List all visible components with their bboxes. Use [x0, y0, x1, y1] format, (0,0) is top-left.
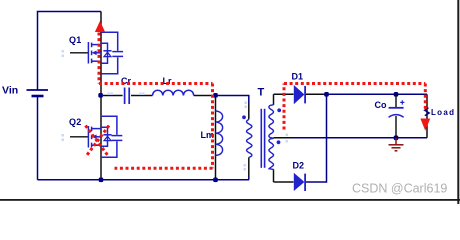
wire secondary bottom to D2	[274, 181, 294, 183]
inductor Lm	[216, 111, 223, 155]
wire D1 to junction	[306, 93, 327, 95]
red dashed X mark over Q2 leg 1	[86, 126, 110, 158]
current path red dashed right vertical of tank loop	[211, 84, 214, 169]
transistor Q1 body diode triangle	[104, 52, 111, 56]
wire Lm branch vertical	[215, 97, 217, 180]
transformer secondary winding polarity dot top	[277, 108, 281, 112]
wire top rail Vin+ to Q1 drain	[38, 12, 102, 91]
red dashed X mark over Q2 leg 2	[86, 126, 110, 158]
capacitor Co leads	[395, 94, 397, 138]
capacitor Cr	[125, 88, 130, 105]
current path red dashed bottom horizontal of tank loop	[115, 167, 213, 170]
transformer T secondary top winding	[269, 105, 274, 139]
transformer secondary top lead	[273, 94, 275, 105]
current path red arrow up at Q1 drain	[95, 21, 105, 32]
node midpoint of half-bridge	[98, 93, 103, 98]
wire Cr to Lr	[131, 95, 153, 97]
current path red dashed secondary side vertical	[283, 84, 286, 130]
diode D2	[294, 173, 305, 191]
transistor Q2 body arrow	[92, 135, 97, 140]
wire primary bottom black lead	[248, 158, 250, 177]
transformer core	[261, 109, 264, 168]
ground symbol	[389, 138, 404, 151]
svg-text:Q1: Q1	[69, 35, 82, 45]
svg-text:Vin: Vin	[2, 85, 18, 97]
wire output top rail	[327, 93, 427, 95]
node Co bottom	[394, 136, 399, 141]
current path red arrow down at load	[420, 119, 430, 131]
node Q2 source / bottom rail	[99, 178, 104, 183]
svg-text:CSDN @Carl619: CSDN @Carl619	[352, 182, 447, 196]
wire secondary top to D1	[274, 93, 294, 95]
transistor Q1 body arrow	[92, 51, 97, 56]
wire node to transformer primary top	[218, 96, 249, 105]
capacitor Co plus sign	[400, 100, 404, 104]
node Lm bottom / bottom rail	[213, 178, 218, 183]
node resonant tank top	[213, 93, 218, 98]
node Co top	[394, 92, 399, 97]
capacitor Co polarized plates	[389, 108, 404, 117]
resistor load zigzag	[425, 108, 430, 116]
faint wire-end marks	[62, 50, 289, 171]
bottom window border line	[0, 199, 460, 201]
capacitor across Q2	[101, 116, 122, 157]
wire D2 cathode up to output junction	[306, 94, 327, 182]
transistor Q1 gate lead wire	[70, 52, 88, 54]
svg-text:Q2: Q2	[69, 117, 82, 127]
current path red dashed through Q1	[98, 33, 101, 84]
diode D1	[294, 85, 305, 104]
source Vin battery	[27, 90, 49, 96]
svg-text:D1: D1	[292, 72, 304, 82]
wire left rail Vin- to bottom	[37, 96, 39, 180]
wire primary top black lead	[248, 104, 250, 119]
right window border line	[457, 0, 459, 204]
current path red dashed output top horizontal	[284, 82, 425, 85]
wire bottom rail	[38, 179, 250, 181]
transformer secondary bottom lead	[273, 169, 275, 182]
wire Lr to node	[194, 95, 216, 97]
svg-text:T: T	[258, 87, 265, 99]
transformer primary polarity dot	[242, 115, 246, 119]
svg-text:D2: D2	[293, 161, 305, 171]
transistor Q2 gate lead wire	[70, 136, 88, 138]
transformer T primary winding	[247, 119, 252, 157]
wire midpoint to Cr	[103, 95, 123, 97]
inductor Lr	[153, 90, 194, 95]
svg-text:Load: Load	[431, 108, 455, 117]
wire half-bridge main vertical	[100, 12, 102, 180]
wire transformer primary bottom corner	[248, 177, 250, 180]
current path red dashed top horizontal left	[99, 82, 213, 85]
transistor Q2 body diode branch	[101, 127, 112, 146]
capacitor across Q1	[101, 32, 123, 73]
transistor Q1 body diode branch	[101, 43, 112, 63]
current path red dashed down to load	[424, 84, 427, 112]
wire output bottom rail from center tap	[274, 137, 428, 139]
svg-text:Co: Co	[375, 100, 387, 110]
transistor Q2 MOSFET symbol	[88, 126, 101, 148]
node rectifier output junction	[324, 92, 329, 97]
transformer T secondary bottom winding	[269, 138, 274, 169]
wire load branch vertical	[426, 94, 428, 138]
transformer secondary winding polarity dot bottom	[277, 140, 281, 144]
wire center tap black segment	[274, 137, 291, 139]
transistor Q1 MOSFET symbol	[88, 42, 101, 64]
transistor Q2 body diode triangle	[104, 136, 111, 140]
